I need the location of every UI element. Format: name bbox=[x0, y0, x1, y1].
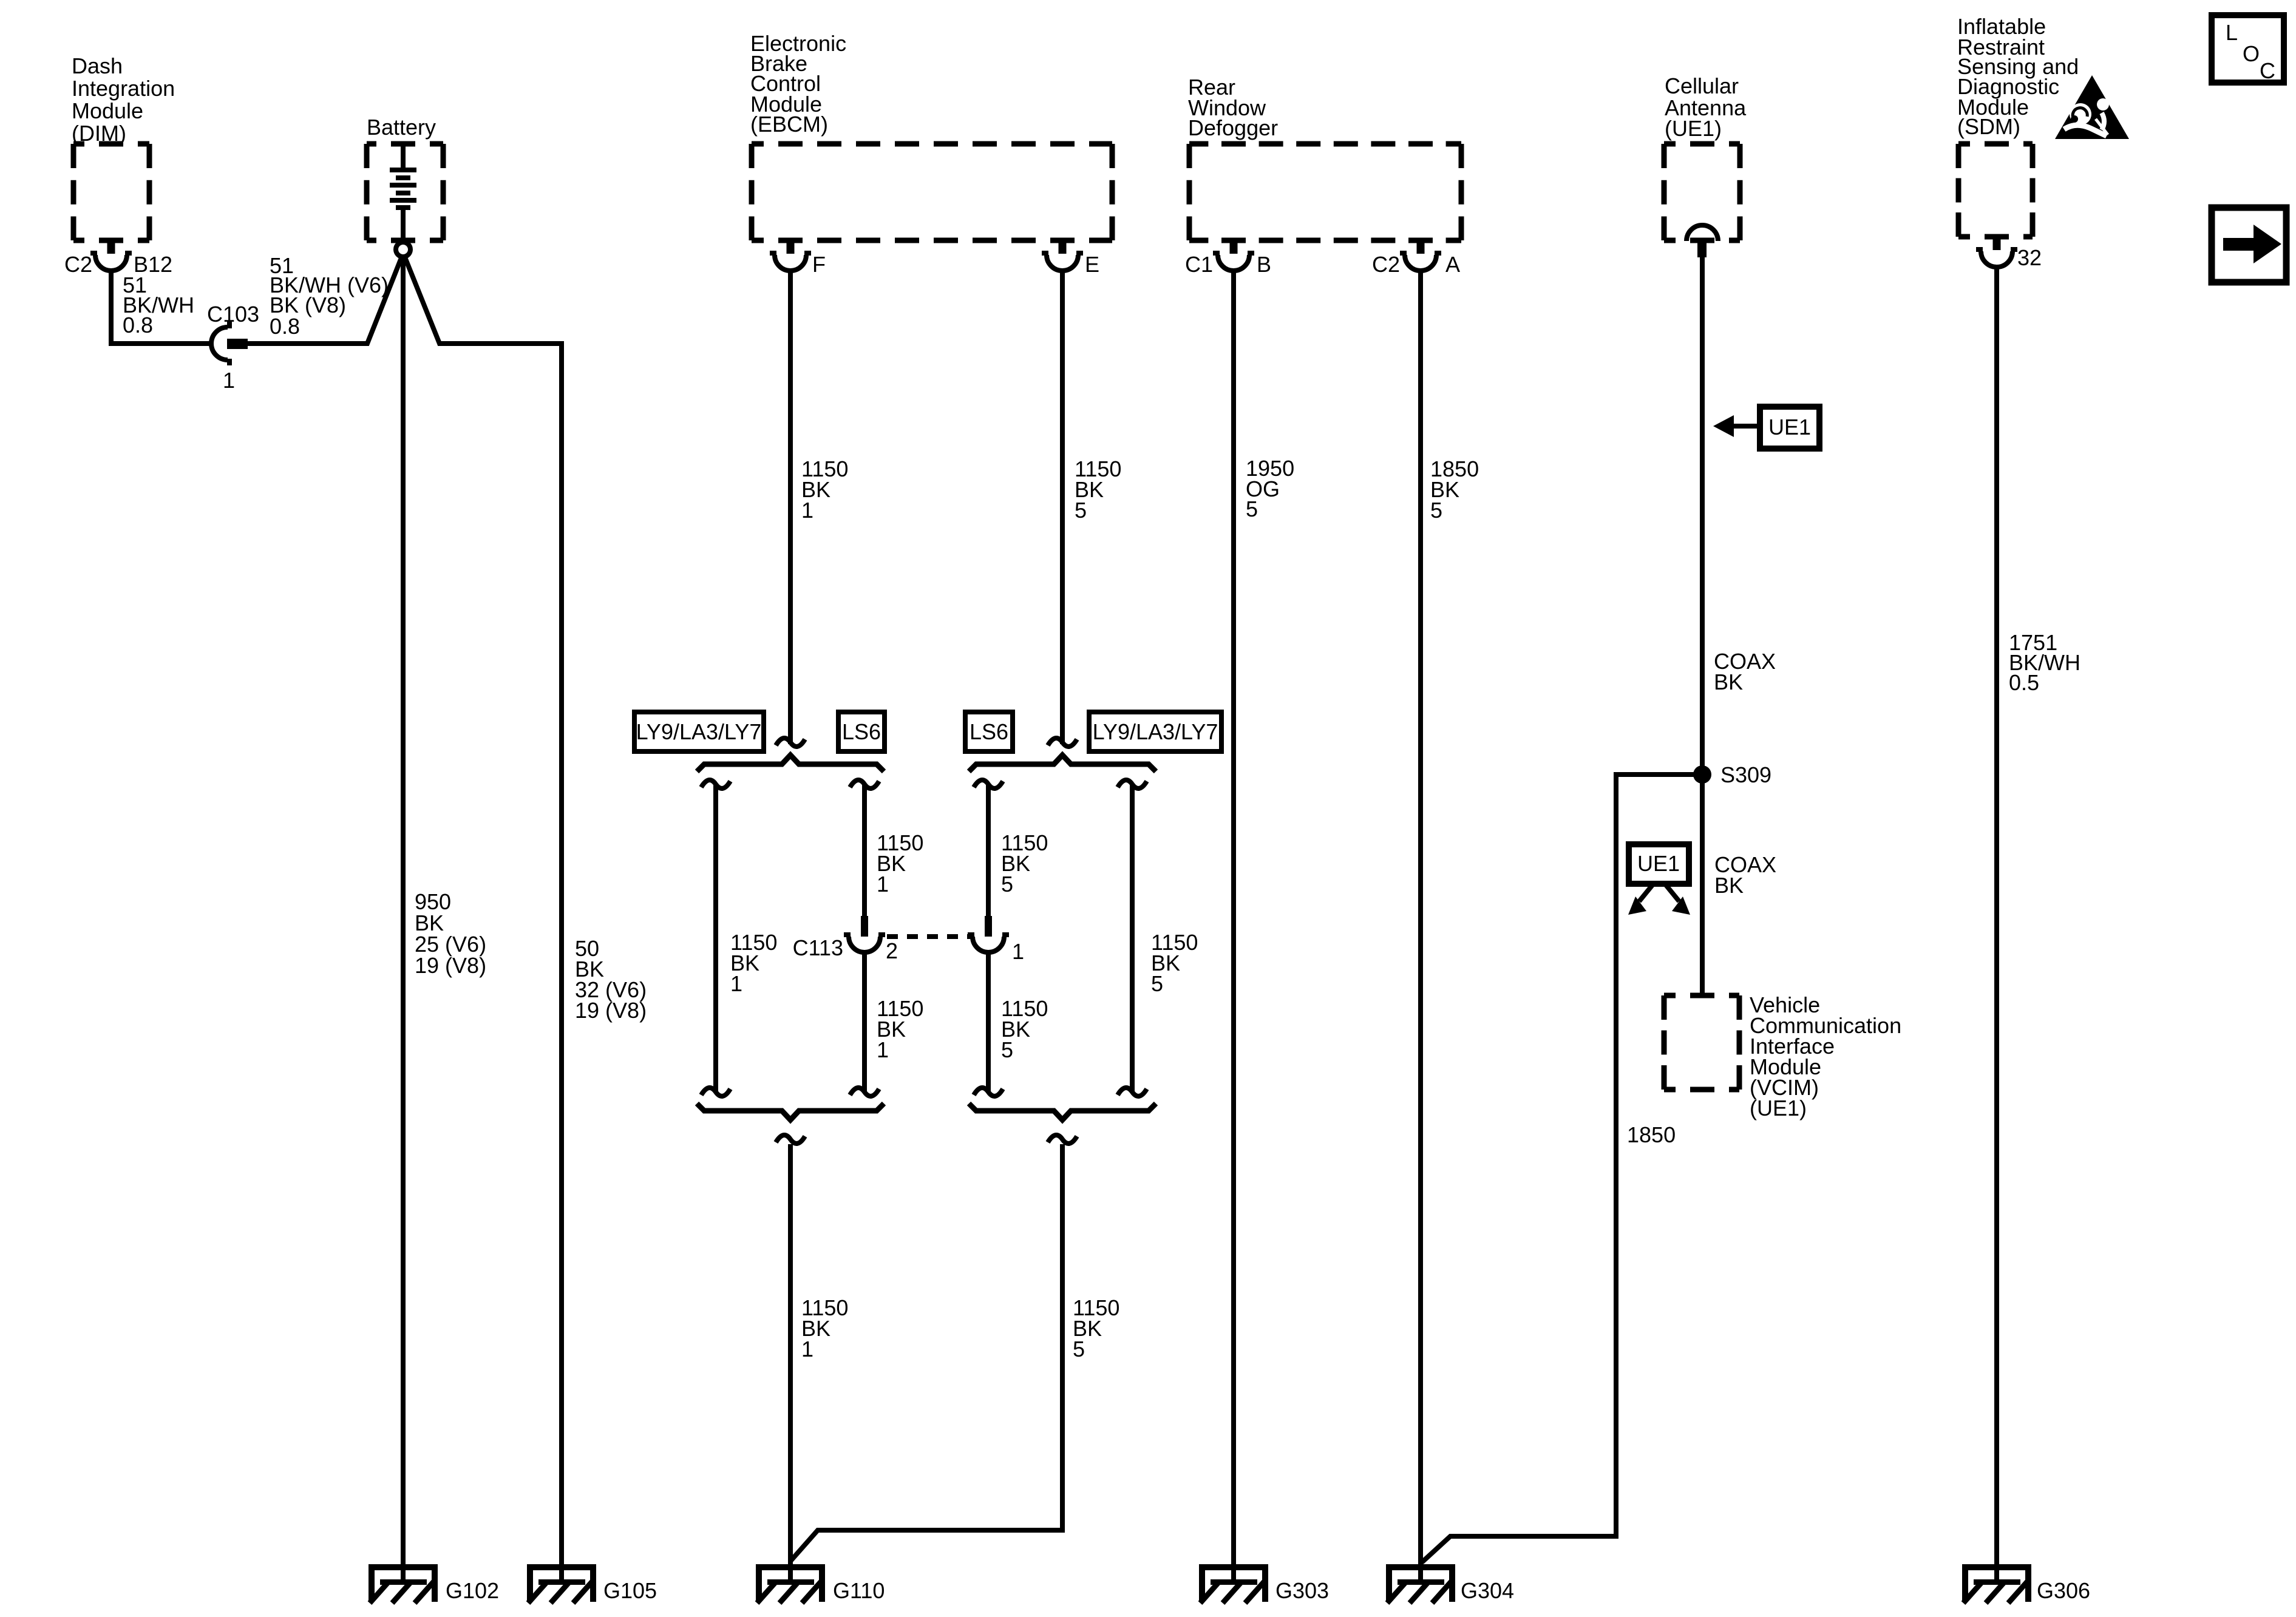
wire label 1150 BK 1 (to G110) bbox=[801, 1295, 848, 1361]
svg-text:BK: BK bbox=[1714, 670, 1743, 694]
svg-text:O: O bbox=[2243, 41, 2260, 66]
coax wire from antenna to S309 bbox=[1700, 257, 1705, 775]
svg-text:1: 1 bbox=[801, 1337, 813, 1361]
merge brace above G110 wire bbox=[697, 1103, 884, 1120]
svg-text:(UE1): (UE1) bbox=[1750, 1096, 1807, 1120]
svg-text:0.5: 0.5 bbox=[2009, 670, 2039, 695]
svg-text:(UE1): (UE1) bbox=[1665, 116, 1722, 141]
wire break branch LY9r bottom bbox=[1118, 1088, 1147, 1096]
module label Inflatable Restraint Sensing and Diagnostic Module (SDM) bbox=[1957, 14, 2079, 139]
svg-text:LY9/LA3/LY7: LY9/LA3/LY7 bbox=[636, 719, 762, 744]
svg-text:B: B bbox=[1257, 252, 1271, 277]
wire break on EBCM E wire bbox=[1048, 738, 1077, 747]
module EBCM box bbox=[752, 144, 1112, 240]
svg-text:0.8: 0.8 bbox=[270, 314, 300, 339]
svg-text:Cellular: Cellular bbox=[1665, 73, 1739, 98]
wire 1150 BK 1 from EBCM F bbox=[788, 269, 793, 744]
svg-text:G303: G303 bbox=[1275, 1578, 1329, 1603]
split brace under F wire bbox=[697, 755, 884, 771]
svg-text:C: C bbox=[2260, 58, 2275, 83]
svg-text:LS6: LS6 bbox=[970, 719, 1008, 744]
wire label COAX BK (upper) bbox=[1714, 649, 1776, 694]
option box LS6 right bbox=[965, 712, 1013, 751]
svg-text:1850: 1850 bbox=[1627, 1122, 1676, 1147]
wire break below merge brace right bbox=[1048, 1135, 1077, 1144]
antenna symbol in box bbox=[1686, 225, 1718, 241]
svg-text:2: 2 bbox=[886, 938, 898, 963]
wire label 1150 BK 1 (EBCM F) bbox=[801, 456, 848, 523]
module SDM box bbox=[1958, 144, 2033, 237]
svg-text:5: 5 bbox=[1430, 498, 1442, 523]
svg-text:G102: G102 bbox=[446, 1578, 499, 1603]
continuation arrow box bbox=[2212, 208, 2286, 282]
connector C2 pin B12 at DIM bbox=[90, 238, 132, 271]
wire label 1950 OG 5 bbox=[1246, 456, 1294, 521]
connector C2 pin A at defogger bbox=[1400, 238, 1441, 271]
wire branch LY9r (1150 BK 5) bbox=[1130, 784, 1135, 1092]
wire break branch LS6 top bbox=[850, 780, 879, 788]
dashed link between C113 halves bbox=[887, 934, 974, 939]
splice S309 bbox=[1693, 765, 1711, 784]
wire 1150 BK 5 from EBCM E bbox=[1060, 269, 1065, 744]
wire branch LY9 (1150 BK 1) bbox=[713, 784, 718, 1092]
wire 1850 BK 5 to G304 bbox=[1418, 269, 1423, 1584]
wire 51 from C103 to battery splice bbox=[248, 258, 401, 344]
svg-text:5: 5 bbox=[1075, 498, 1087, 523]
svg-text:Module: Module bbox=[72, 98, 143, 123]
connector C113 pin 1 bbox=[968, 916, 1009, 952]
svg-text:5: 5 bbox=[1001, 1037, 1013, 1062]
module Rear Window Defogger box bbox=[1189, 144, 1461, 240]
wire 1751 BK/WH to G306 bbox=[1994, 266, 1999, 1584]
module Cellular Antenna box bbox=[1664, 144, 1740, 240]
wire 1950 OG 5 to G303 bbox=[1231, 269, 1236, 1584]
wire break branch LY9 bottom bbox=[701, 1088, 730, 1096]
coax wire S309 to VCIM bbox=[1700, 775, 1705, 997]
module label Dash Integration Module (DIM) bbox=[72, 53, 175, 146]
wire label 950 BK 25 (V6) 19 (V8) bbox=[415, 889, 486, 978]
harness tag UE1 with fan-out arrows bbox=[1628, 844, 1690, 915]
svg-text:LS6: LS6 bbox=[842, 719, 881, 744]
ground G105 bbox=[527, 1564, 596, 1602]
svg-text:C1: C1 bbox=[1185, 252, 1213, 277]
merge brace above E ground wire bbox=[969, 1103, 1156, 1120]
wire label 1751 BK/WH 0.5 bbox=[2009, 630, 2080, 695]
module VCIM box bbox=[1664, 995, 1739, 1090]
connector C113 pin 2 bbox=[844, 916, 885, 952]
wire branch LS6 upper (1150 BK 1) bbox=[862, 784, 867, 918]
connector C1 pin B at defogger bbox=[1213, 238, 1254, 271]
wire label COAX BK (lower) bbox=[1714, 852, 1776, 898]
wire break branch LY9 top bbox=[701, 780, 730, 788]
wire branch LS6r upper (1150 BK 5) bbox=[986, 784, 991, 918]
wire break on EBCM F wire bbox=[776, 738, 805, 747]
splice node at battery negative terminal bbox=[396, 242, 410, 257]
wire label 1150 BK 5 (LS6r upper) bbox=[1001, 830, 1048, 897]
module DIM box bbox=[73, 144, 149, 240]
svg-text:E: E bbox=[1085, 252, 1099, 277]
split brace under E wire bbox=[969, 755, 1156, 771]
svg-text:1: 1 bbox=[223, 368, 235, 393]
wire label 1150 BK 1 (LY9 branch) bbox=[730, 930, 777, 996]
module label Cellular Antenna (UE1) bbox=[1665, 73, 1747, 141]
svg-text:Dash: Dash bbox=[72, 53, 123, 78]
svg-text:LY9/LA3/LY7: LY9/LA3/LY7 bbox=[1093, 719, 1218, 744]
svg-text:5: 5 bbox=[1073, 1337, 1085, 1361]
svg-text:1: 1 bbox=[1012, 939, 1024, 964]
wire 51 from DIM to C103 bbox=[111, 268, 214, 344]
svg-text:Integration: Integration bbox=[72, 76, 175, 101]
wire branch LS6 lower (1150 BK 1) bbox=[862, 952, 867, 1092]
module label Rear Window Defogger bbox=[1188, 75, 1278, 140]
option box LY9/LA3/LY7 right bbox=[1089, 712, 1221, 751]
svg-text:G306: G306 bbox=[2037, 1578, 2090, 1603]
wire break branch LS6 bottom bbox=[850, 1088, 879, 1096]
wire label 1150 BK 5 (to G110) bbox=[1073, 1295, 1119, 1361]
ground G306 bbox=[1962, 1564, 2031, 1602]
connector C103 inline bbox=[211, 322, 248, 365]
svg-text:G304: G304 bbox=[1461, 1578, 1514, 1603]
wire break below merge brace left bbox=[776, 1135, 805, 1144]
svg-text:A: A bbox=[1445, 252, 1460, 277]
wire label 1150 BK 1 (LS6 upper) bbox=[877, 830, 923, 897]
svg-text:UE1: UE1 bbox=[1637, 851, 1680, 876]
svg-text:BK: BK bbox=[1714, 873, 1744, 898]
svg-text:5: 5 bbox=[1151, 971, 1163, 996]
wire 1850 from S309 to G304 bbox=[1422, 775, 1702, 1562]
module label Electronic Brake Control Module (EBCM) bbox=[750, 31, 846, 137]
SRS airbag warning triangle icon bbox=[2055, 75, 2129, 139]
wire 950 battery to G102 bbox=[401, 257, 406, 1584]
svg-text:Defogger: Defogger bbox=[1188, 115, 1278, 140]
ground G304 bbox=[1386, 1564, 1455, 1602]
module label Vehicle Communication Interface Module (VCIM) (UE1) bbox=[1750, 992, 1901, 1120]
ground G102 bbox=[369, 1564, 438, 1602]
svg-text:19 (V8): 19 (V8) bbox=[575, 998, 647, 1023]
wire label 1150 BK 1 (LS6 lower) bbox=[877, 996, 923, 1062]
svg-text:F: F bbox=[812, 252, 826, 277]
wire label 51 BK/WH 0.8 bbox=[123, 273, 194, 337]
connector pin E at EBCM bbox=[1042, 238, 1083, 271]
svg-text:UE1: UE1 bbox=[1768, 415, 1811, 439]
svg-text:C2: C2 bbox=[1372, 252, 1400, 277]
svg-text:C2: C2 bbox=[64, 252, 92, 277]
option box LY9/LA3/LY7 left bbox=[634, 712, 764, 751]
svg-text:1: 1 bbox=[801, 498, 813, 523]
harness tag UE1 with arrow bbox=[1713, 407, 1819, 449]
wire label 1150 BK 5 (LY9r branch) bbox=[1151, 930, 1198, 996]
wire label 1150 BK 5 (LS6r lower) bbox=[1001, 996, 1048, 1062]
svg-text:S309: S309 bbox=[1720, 762, 1771, 787]
svg-text:5: 5 bbox=[1246, 497, 1258, 521]
wire break branch LS6r top bbox=[974, 780, 1003, 788]
battery symbol bbox=[401, 146, 406, 242]
svg-text:Battery: Battery bbox=[367, 115, 436, 140]
svg-text:L: L bbox=[2226, 20, 2238, 45]
svg-text:5: 5 bbox=[1001, 872, 1013, 897]
svg-text:32: 32 bbox=[2017, 245, 2042, 270]
svg-text:1: 1 bbox=[730, 971, 742, 996]
wire label 51 BK/WH (V6) BK (V8) 0.8 bbox=[270, 253, 389, 339]
svg-text:G110: G110 bbox=[833, 1578, 885, 1603]
wire splice to right branch bbox=[405, 257, 562, 1584]
svg-text:(SDM): (SDM) bbox=[1957, 114, 2020, 139]
wire label 1150 BK 5 (EBCM E) bbox=[1075, 456, 1121, 523]
wire branch LS6r lower (1150 BK 5) bbox=[986, 952, 991, 1092]
svg-text:C113: C113 bbox=[793, 935, 843, 960]
wire break branch LS6r bottom bbox=[974, 1088, 1003, 1096]
connector pin F at EBCM bbox=[770, 238, 811, 271]
svg-text:G105: G105 bbox=[603, 1578, 657, 1603]
svg-text:C103: C103 bbox=[207, 302, 259, 327]
wire 1150 BK 5 to G110 bbox=[790, 1144, 1062, 1561]
wire label 50 BK 32 (V6) 19 (V8) bbox=[575, 936, 647, 1023]
option box LS6 left bbox=[838, 712, 885, 751]
svg-text:(EBCM): (EBCM) bbox=[750, 112, 828, 137]
wire 1150 BK 1 to G110 bbox=[788, 1144, 793, 1584]
LOC legend box bbox=[2212, 15, 2284, 83]
ground G110 bbox=[756, 1564, 825, 1602]
wire break branch LY9r top bbox=[1118, 780, 1147, 788]
svg-text:1: 1 bbox=[877, 872, 889, 897]
ground G303 bbox=[1199, 1564, 1268, 1602]
svg-text:1: 1 bbox=[877, 1037, 889, 1062]
battery box bbox=[367, 144, 443, 240]
svg-text:19 (V8): 19 (V8) bbox=[415, 953, 486, 978]
wire label 1850 BK 5 bbox=[1430, 456, 1479, 523]
connector pin 32 at SDM bbox=[1976, 234, 2017, 267]
svg-text:0.8: 0.8 bbox=[123, 313, 153, 337]
